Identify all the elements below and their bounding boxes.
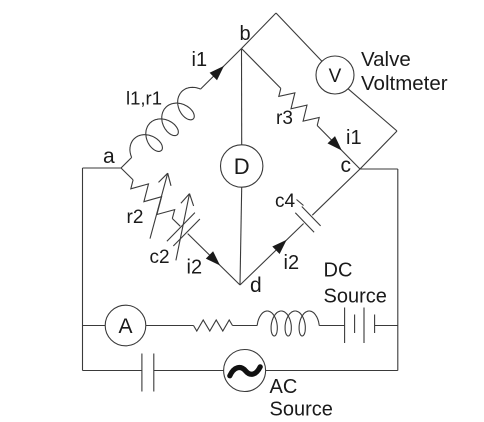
svg-text:b: b — [240, 23, 251, 45]
svg-text:D: D — [234, 154, 250, 179]
svg-text:r3: r3 — [276, 108, 293, 129]
svg-text:A: A — [118, 315, 132, 338]
svg-text:c2: c2 — [150, 247, 170, 268]
svg-text:r2: r2 — [127, 207, 144, 228]
svg-text:i1: i1 — [346, 127, 362, 149]
svg-text:i2: i2 — [187, 257, 203, 279]
svg-text:DC: DC — [324, 260, 353, 282]
svg-text:Source: Source — [270, 399, 333, 421]
svg-text:Source: Source — [324, 286, 387, 308]
svg-text:V: V — [329, 66, 342, 87]
svg-text:a: a — [103, 145, 115, 168]
svg-text:d: d — [250, 274, 262, 297]
svg-text:Voltmeter: Voltmeter — [361, 72, 448, 95]
svg-text:c4: c4 — [275, 191, 296, 212]
svg-text:AC: AC — [270, 376, 298, 398]
svg-text:i1: i1 — [192, 49, 208, 71]
svg-text:i2: i2 — [284, 252, 300, 274]
svg-text:l1,r1: l1,r1 — [126, 88, 162, 109]
svg-text:c: c — [341, 154, 352, 177]
svg-text:Valve: Valve — [361, 48, 411, 71]
